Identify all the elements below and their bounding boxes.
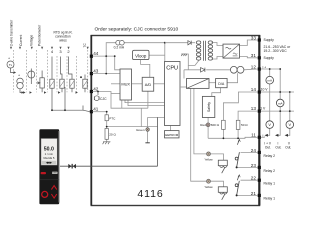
- wire terminal 43: [93, 73, 121, 75]
- box AC/DC converter: [223, 44, 240, 58]
- svg-text:Yellow: Yellow: [204, 185, 213, 189]
- svg-text:Supply: Supply: [264, 56, 275, 60]
- terminal 31: [258, 56, 261, 59]
- resistor RTD wire4: [51, 57, 53, 80]
- terminal 22: [258, 179, 261, 182]
- junction top right: [164, 42, 166, 44]
- enclosure box 4116: [91, 36, 259, 206]
- arrow ext col3: [285, 134, 288, 137]
- LCD icon bar: [42, 161, 56, 164]
- wire display link vertical: [157, 117, 159, 166]
- wire vloop right: [149, 54, 165, 56]
- chassis ground transformer: [181, 54, 187, 56]
- wire chassis stub: [186, 54, 189, 65]
- svg-text:500 Ω: 500 Ω: [211, 123, 220, 127]
- wire MUX stub 42: [111, 93, 120, 95]
- source voltage input: [30, 69, 32, 72]
- terminal 11: [258, 136, 261, 139]
- arrow top tx col: [10, 47, 12, 50]
- box Safety: [202, 96, 214, 117]
- terminal 44: [90, 55, 93, 58]
- wire 24: [241, 151, 258, 153]
- resistor RTD wire2: [69, 57, 73, 80]
- svg-text:Safety: Safety: [207, 102, 211, 112]
- arrow top rtd4 col: [51, 47, 53, 50]
- terminal 21: [258, 194, 261, 197]
- arrow sensor row voltage: [30, 91, 32, 93]
- svg-text:Relay 2: Relay 2: [264, 154, 276, 158]
- wire AD to CPU: [154, 83, 165, 85]
- svg-text:EEPROM: EEPROM: [165, 133, 179, 137]
- wire PTC branch down: [106, 112, 108, 115]
- svg-text:50 Ω: 50 Ω: [241, 123, 248, 127]
- svg-text:20 Ω: 20 Ω: [109, 132, 116, 136]
- svg-text:Relay 1: Relay 1: [264, 181, 276, 185]
- arrow ext col2: [275, 134, 278, 137]
- svg-text:Relay 2: Relay 2: [264, 169, 276, 173]
- svg-text:Voltage: Voltage: [30, 35, 34, 46]
- svg-text:41: 41: [93, 107, 99, 112]
- svg-text:TC: TC: [83, 43, 87, 48]
- transformer T1: [196, 41, 212, 61]
- svg-text:CJC: CJC: [100, 97, 107, 101]
- terminal 12: [258, 67, 261, 70]
- wire ext 11 stub: [261, 136, 265, 138]
- wire PTC junction row: [107, 126, 158, 128]
- svg-text:Current: Current: [19, 35, 23, 46]
- wire iso to DA: [209, 82, 216, 84]
- button bar grey: [52, 172, 58, 174]
- svg-text:Red: Red: [200, 123, 206, 127]
- wire 20ohm to ground: [106, 139, 108, 142]
- box D/A: [216, 79, 228, 88]
- wire ext 13: [261, 110, 294, 112]
- wire 13 path: [238, 111, 258, 120]
- wire green led tap: [148, 116, 165, 118]
- terminal 43: [90, 72, 93, 75]
- junction ext col1: [269, 68, 271, 70]
- display unit LCD: [41, 139, 57, 166]
- arrow ext col1: [265, 134, 268, 137]
- terminal 13: [258, 110, 261, 113]
- wire rtd bottom 2a: [71, 88, 73, 92]
- svg-text:44: 44: [93, 51, 99, 56]
- svg-text:Out.: Out.: [265, 145, 271, 149]
- button up: [51, 186, 56, 190]
- svg-text:A/D: A/D: [145, 82, 152, 87]
- svg-text:12: 12: [251, 64, 257, 69]
- dashed line sep current: [26, 50, 28, 92]
- wire meter col3: [289, 92, 291, 121]
- svg-text:Order separately: CJC connecto: Order separately: CJC connector 5910: [95, 27, 179, 33]
- junction PTC top: [106, 111, 108, 113]
- resistor RTD element: [84, 75, 86, 80]
- wire 500ohm bottom: [222, 129, 224, 138]
- svg-text:V: V: [268, 123, 271, 127]
- junction 500ohm bus: [223, 137, 225, 139]
- svg-text:Out.: Out.: [275, 145, 281, 149]
- arrow top poti col: [41, 47, 43, 50]
- dashed line sep tx: [13, 50, 15, 92]
- wire ext 12: [261, 68, 280, 70]
- svg-text:43: 43: [93, 69, 99, 74]
- wire 108 to 126 link: [140, 108, 142, 126]
- junction rtd elem top: [80, 76, 82, 78]
- terminal 41: [90, 110, 93, 113]
- button bar red: [41, 172, 46, 174]
- wire secondary top: [212, 43, 224, 46]
- svg-text:Relay 1: Relay 1: [264, 197, 276, 201]
- svg-text:V: V: [289, 123, 292, 127]
- connector symbol display: [68, 164, 76, 169]
- dashed line TC: [87, 50, 89, 92]
- wire acdc to 33: [240, 40, 258, 46]
- dashed line sep poti: [47, 50, 49, 92]
- meter V 1: [266, 121, 274, 129]
- svg-text:14: 14: [251, 87, 257, 92]
- wire meter col1: [269, 69, 271, 77]
- wire 02ma down to CPU: [164, 43, 166, 62]
- svg-text:+: +: [18, 74, 20, 78]
- wire MUX stub mid: [111, 83, 120, 85]
- junction ext col2: [279, 68, 281, 70]
- svg-text:10 V: 10 V: [261, 87, 269, 91]
- svg-text:wires: wires: [59, 39, 67, 43]
- current source output: [230, 66, 244, 73]
- svg-text:13: 13: [251, 106, 257, 111]
- LED yellow relay1: [207, 179, 211, 183]
- button down: [51, 194, 56, 198]
- box MUX: [120, 69, 132, 100]
- wire DA to safety: [212, 88, 221, 97]
- resistor 20 ohm: [105, 129, 108, 140]
- svg-text:D/A: D/A: [218, 82, 225, 86]
- box EEPROM: [165, 131, 180, 138]
- box A/D: [142, 77, 154, 91]
- wire meter col2: [279, 69, 281, 100]
- svg-text:Out.: Out.: [285, 145, 291, 149]
- resistor PTC: [105, 115, 108, 121]
- isolation barrier U2: [187, 79, 210, 89]
- junction ext col3 13: [289, 110, 291, 112]
- svg-text:Vloop: Vloop: [135, 53, 147, 58]
- terminal 23: [258, 166, 261, 169]
- relay coil K1: [218, 187, 227, 200]
- svg-text:Yellow: Yellow: [204, 158, 213, 162]
- junction CJC tap: [97, 91, 99, 93]
- wire rtd bottom 2: [64, 87, 66, 110]
- terminal 24: [258, 151, 261, 154]
- wire current source to 12: [244, 68, 258, 71]
- wire DA to source: [227, 73, 238, 83]
- wire rtd bottom 4: [51, 88, 53, 110]
- resistor 500 ohm: [222, 120, 226, 129]
- wire MUX to AD: [132, 83, 143, 85]
- terminal 14: [258, 90, 261, 93]
- relay coil K2: [218, 160, 227, 173]
- resistor 50 ohm: [236, 120, 240, 129]
- wire green led to bar: [147, 131, 149, 143]
- wire primary top: [165, 42, 188, 44]
- meter mA 2: [276, 99, 284, 107]
- svg-text:Supply: Supply: [264, 38, 275, 42]
- wire terminal 42: [93, 92, 148, 109]
- arrow top rtd3 col: [59, 47, 61, 50]
- ground bar green: [145, 142, 149, 144]
- arrow sensor row tc: [76, 91, 78, 93]
- wire rtd common: [52, 109, 83, 111]
- meter V 2: [286, 121, 294, 129]
- arrow top voltage col: [31, 47, 33, 50]
- wire 50ohm bottom: [237, 129, 239, 138]
- arrow sensor row poti: [44, 91, 46, 93]
- CJC sensor: [94, 92, 99, 101]
- transmitter Tx: [7, 61, 14, 68]
- junction rtd4: [51, 109, 53, 111]
- diode D1: [188, 41, 191, 45]
- junction ext col3 14: [289, 91, 291, 93]
- junction PTC mid: [106, 126, 108, 128]
- svg-text:Tx: Tx: [9, 63, 13, 67]
- dashed line sep rtd2: [76, 56, 78, 92]
- wire diode1 to transformer: [191, 42, 195, 44]
- wire 11 bus: [208, 137, 258, 138]
- wire green led down: [147, 117, 149, 128]
- svg-text:+: +: [8, 57, 10, 61]
- svg-text:0.2 mA: 0.2 mA: [114, 46, 125, 50]
- wire rtd bottom 3: [61, 88, 63, 92]
- svg-text:MUX: MUX: [121, 81, 130, 86]
- arrow sensor row current: [22, 91, 24, 93]
- wire vloop bottom to AD: [141, 60, 150, 78]
- arrow top current col: [19, 47, 21, 50]
- wire 0.2mA feed: [106, 43, 165, 74]
- wire safety to led: [207, 118, 209, 123]
- svg-text:PTC: PTC: [109, 117, 116, 121]
- junction rtd2: [64, 109, 66, 111]
- dashed line sep rtd4: [56, 56, 58, 92]
- wire yellow2 to coil: [211, 154, 224, 160]
- relay switch K2: [235, 139, 240, 167]
- wire secondary bottom: [212, 57, 224, 60]
- wire acdc to 31: [240, 57, 258, 58]
- wire tc diagonal: [82, 106, 84, 111]
- wire iso top drop: [183, 70, 185, 79]
- chassis ground PTC: [103, 142, 111, 144]
- wire MUX CPU control 1: [125, 100, 165, 103]
- wire led to bus: [207, 127, 209, 139]
- wire MUX bottom control: [121, 100, 123, 108]
- wire relay1 drive: [191, 88, 207, 181]
- svg-text:CPU: CPU: [166, 66, 178, 72]
- junction 50ohm bus: [237, 137, 239, 139]
- svg-text:2-wire transmitter: 2-wire transmitter: [10, 19, 14, 46]
- wire 14 path: [223, 92, 257, 120]
- box Vloop: [133, 50, 150, 59]
- svg-text:◀■▶: ◀■▶: [46, 161, 53, 165]
- wire AD bottom: [147, 91, 149, 108]
- wire 23: [237, 166, 258, 168]
- dashed line sep voltage: [36, 50, 38, 92]
- LED red: [206, 123, 210, 127]
- wire CPU to EEPROM: [170, 126, 172, 131]
- wire display link horizontal: [60, 165, 158, 167]
- wire 22: [241, 179, 258, 181]
- wire relay2 drive: [194, 88, 207, 153]
- svg-text:1 V: 1 V: [260, 107, 266, 111]
- arrow sensor row rtd3: [58, 91, 60, 93]
- dashed line sep rtd3: [66, 56, 68, 92]
- wire terminal 44: [93, 56, 121, 70]
- junction 44 corner: [114, 55, 116, 57]
- svg-text:4116: 4116: [137, 188, 163, 200]
- svg-text:19.2...300 VDC: 19.2...300 VDC: [264, 49, 288, 53]
- button ok ring: [42, 191, 48, 197]
- relay switch K1: [235, 175, 240, 196]
- svg-text:VALUE 5: VALUE 5: [43, 156, 55, 160]
- wire CPU to iso: [180, 86, 187, 88]
- wire yellow1 to coil: [211, 181, 224, 187]
- wire terminal 41: [93, 111, 107, 113]
- wire PTC to 20ohm: [106, 121, 108, 129]
- wire ext 14: [261, 91, 294, 93]
- junction 0.2mA sense: [105, 55, 107, 57]
- arrow top tc col: [87, 47, 89, 50]
- wire transformer primary bottom: [188, 60, 199, 70]
- wire dc bus: [184, 69, 201, 71]
- svg-text:Potentiometer: Potentiometer: [38, 24, 42, 46]
- junction ext col2 13: [279, 110, 281, 112]
- resistor RTD wire3: [61, 57, 63, 80]
- potentiometer: [41, 71, 43, 78]
- terminal 42: [90, 90, 93, 93]
- wire rtd elem bottom: [84, 88, 86, 92]
- display unit 4501 body: [39, 129, 59, 204]
- LED yellow relay2: [207, 152, 211, 156]
- arrow top rtd2 col: [67, 47, 69, 50]
- meter mA 1: [266, 76, 274, 84]
- box CPU: [165, 62, 181, 126]
- wire MUX CPU control 2: [128, 100, 165, 106]
- current source 0.2 mA: [116, 40, 124, 45]
- diode D2: [201, 68, 205, 72]
- keypad divider: [39, 179, 59, 181]
- terminal 33: [258, 38, 261, 41]
- svg-text:Green: Green: [136, 128, 145, 132]
- wire 21: [237, 194, 258, 196]
- LED green: [146, 128, 150, 132]
